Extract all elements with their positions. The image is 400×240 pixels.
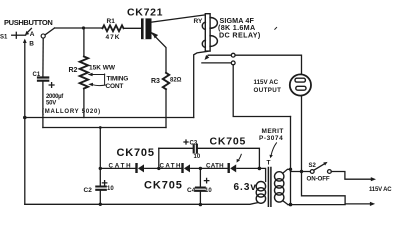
wire: S2 to mains top arrow — [331, 172, 372, 180]
svg-text:CK705: CK705 — [210, 135, 247, 147]
svg-text:R3: R3 — [151, 78, 160, 85]
capacitor C1 plates — [38, 78, 48, 81]
relay RY coil loops — [210, 18, 217, 47]
node: left rail / rail1 — [23, 116, 27, 120]
capacitor C3 riser — [158, 148, 160, 168]
capacitor C2 top lead — [99, 128, 101, 187]
svg-text:115V AC: 115V AC — [369, 187, 392, 193]
svg-text:CONT: CONT — [106, 83, 124, 90]
transistor Q1 emitter lead — [152, 33, 167, 73]
switch S1 blade arrow A — [27, 28, 31, 32]
R2 wiper arrow 1 — [92, 74, 105, 76]
capacitor C2 plus — [102, 181, 106, 185]
wire: R3 down to rail2 — [165, 89, 167, 127]
diode D3 CK705 — [228, 163, 230, 173]
wire: R2 to rail1 — [83, 89, 85, 118]
wire: bottom rail — [25, 203, 258, 205]
svg-text:CATH: CATH — [206, 162, 224, 169]
switch S2 circle left — [310, 170, 314, 174]
svg-text:CK705: CK705 — [144, 179, 183, 191]
diode D1 CK705 — [135, 163, 137, 173]
svg-text:TIMING: TIMING — [107, 76, 129, 83]
svg-text:115V AC: 115V AC — [254, 79, 279, 86]
svg-text:10: 10 — [205, 188, 212, 194]
svg-text:CATH: CATH — [109, 162, 133, 169]
socket J1 circle — [290, 74, 311, 95]
svg-text:(MALLORY 5020): (MALLORY 5020) — [42, 109, 101, 115]
capacitor C3 plus — [184, 140, 188, 144]
relay contact line 1 — [208, 54, 231, 56]
svg-text:ON-OFF: ON-OFF — [307, 176, 330, 183]
diode row wire — [191, 167, 228, 169]
transistor Q1 collector lead — [152, 15, 206, 22]
node: transformer secondary top — [258, 167, 262, 171]
svg-text:10: 10 — [107, 186, 114, 192]
R2 wiper bracket — [104, 74, 106, 85]
transformer core — [268, 168, 271, 207]
diode row wire left — [100, 167, 135, 169]
socket J1 top slot — [295, 78, 305, 82]
wire: circle to top rail — [45, 28, 54, 35]
wire: B contact down left rail — [24, 41, 26, 205]
svg-text:S1: S1 — [0, 35, 8, 41]
svg-text:CATH: CATH — [160, 162, 182, 169]
svg-text:A: A — [30, 31, 35, 38]
capacitor C4 lead bottom — [199, 191, 201, 205]
wire: rail2 — [43, 127, 166, 129]
wire: bottom right rail — [288, 204, 345, 206]
svg-text:MERIT: MERIT — [262, 128, 284, 135]
relay RY coil form — [205, 14, 210, 51]
svg-text:T: T — [267, 160, 271, 167]
node: C4 bottom — [199, 203, 202, 206]
switch S2 line — [291, 171, 311, 173]
relay armature arrow — [207, 55, 208, 56]
transistor Q1 emitter arrow — [152, 32, 158, 38]
node: top rail / R2 junction — [82, 26, 85, 29]
socket J1 bottom slot — [296, 86, 306, 90]
svg-text:R1: R1 — [107, 18, 116, 25]
svg-text:CK721: CK721 — [127, 7, 163, 19]
wire: top rail to R2 — [83, 28, 85, 57]
svg-text:DC RELAY): DC RELAY) — [219, 31, 261, 40]
svg-text:82Ω: 82Ω — [170, 78, 182, 84]
node: W1 / bottom rail — [289, 203, 293, 207]
arrow mains bottom — [370, 202, 375, 206]
wire: circle down to C1 — [42, 38, 44, 77]
switch S2 blade — [314, 164, 325, 170]
svg-text:10: 10 — [194, 154, 201, 160]
resistor R1 zigzag — [103, 25, 124, 31]
arrow B (up) — [23, 39, 27, 43]
capacitor C3 plates — [194, 145, 197, 153]
node: C3 riser junction — [157, 167, 160, 170]
resistor R3 zigzag — [163, 73, 169, 89]
diode row wire middle — [145, 167, 182, 169]
arrow mains top — [371, 177, 376, 181]
capacitor C4 plates — [196, 188, 205, 191]
switch S1 terminal circle — [41, 34, 45, 38]
capacitor C3 wire — [159, 148, 260, 168]
transformer pointer arrow — [271, 143, 276, 155]
svg-text:R2: R2 — [69, 67, 78, 74]
svg-text:P-3074: P-3074 — [259, 135, 283, 142]
relay contact circle 2 — [231, 61, 235, 65]
transistor Q1 base bar — [141, 18, 152, 39]
potentiometer R2 zigzag — [80, 57, 88, 89]
svg-text:PUSHBUTTON: PUSHBUTTON — [4, 18, 52, 27]
transformer primary top lead — [283, 169, 291, 173]
svg-text:B: B — [29, 40, 34, 47]
capacitor C2 plates — [96, 187, 106, 190]
capacitor C1 plus — [49, 83, 54, 88]
svg-text:C3: C3 — [190, 140, 198, 146]
node: primary top / W1 — [289, 168, 292, 171]
svg-text:15K WW: 15K WW — [89, 65, 116, 72]
relay contact circle 1 — [231, 53, 235, 57]
svg-text:C4: C4 — [187, 187, 196, 194]
node: C4 top junction — [199, 167, 202, 170]
transformer primary bottom lead — [283, 201, 288, 205]
transformer primary winding — [275, 172, 284, 181]
capacitor C2 bottom lead — [99, 190, 101, 204]
wire: W1 down to bottom right rail — [290, 117, 292, 205]
svg-text:OUTPUT: OUTPUT — [254, 87, 282, 94]
capacitor C4 lead — [199, 168, 201, 187]
wire: rail1 — [25, 117, 194, 119]
wire: to mains neutral jog — [302, 172, 346, 204]
wire: C1 to rail2 — [42, 82, 44, 128]
svg-text:S2: S2 — [309, 163, 317, 169]
svg-text:47K: 47K — [106, 34, 121, 41]
svg-text:RY: RY — [194, 18, 203, 25]
node: socket wire / S2 line — [300, 170, 303, 173]
wire: contact1 to socket top — [235, 55, 301, 74]
node: C2 / rail2 — [99, 126, 102, 129]
svg-text:50V: 50V — [46, 101, 56, 107]
svg-text:6.3v: 6.3v — [234, 182, 257, 193]
R2 wiper arrow 2 — [93, 84, 107, 87]
wire: R1 to base — [124, 27, 142, 29]
relay RY bottom lead — [194, 51, 208, 117]
wire: mains bottom arrow — [345, 203, 371, 205]
relay contact line 2 — [202, 62, 231, 64]
switch S1 contact tick — [15, 32, 17, 38]
stray mark — [275, 27, 277, 29]
wire: top rail — [55, 27, 103, 29]
diode row wire right — [237, 167, 260, 169]
svg-text:CK705: CK705 — [117, 147, 155, 159]
switch S1 fixed contact line — [12, 34, 26, 36]
diode D3 pointer arrow — [239, 154, 242, 160]
switch S2 circle right — [328, 170, 332, 174]
transformer secondary winding 6.3V — [256, 182, 265, 191]
capacitor C4 plus — [204, 178, 208, 182]
wire: socket bottom down — [301, 96, 303, 172]
transformer secondary top lead — [259, 168, 265, 181]
svg-text:2000µf: 2000µf — [46, 94, 64, 100]
node: C2 bottom / rail — [99, 203, 102, 206]
diode D2 CK705 — [181, 163, 183, 173]
svg-text:C2: C2 — [84, 187, 93, 194]
wire: contact2 down and right — [233, 65, 290, 117]
node: C2 top junction — [99, 167, 102, 170]
